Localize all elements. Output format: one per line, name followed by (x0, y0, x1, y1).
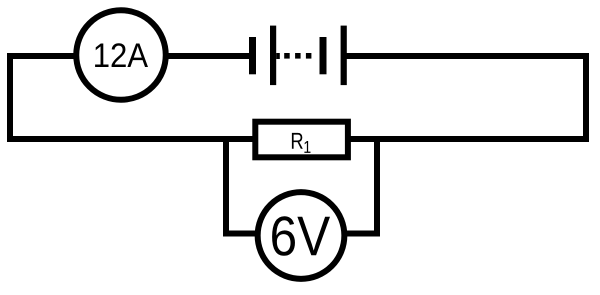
label R1 value (292, 133, 303, 149)
voltmeter (circle meter) (258, 192, 345, 279)
resistor R1 (255, 122, 348, 158)
label 12A (95, 43, 148, 67)
label 6V (272, 216, 330, 256)
wire right vertical (583, 53, 589, 142)
wire sub-loop right vertical (374, 139, 380, 237)
wire top-right segment (343, 53, 589, 59)
wire left vertical (7, 53, 13, 142)
wire middle horizontal (7, 136, 589, 142)
wire top-left segment (7, 53, 251, 59)
wire sub-loop bottom horizontal (223, 231, 380, 237)
ammeter (circle meter) (76, 10, 166, 100)
wire sub-loop left vertical (223, 139, 229, 237)
battery (two cells, dotted omitted-cells section) (249, 26, 347, 86)
